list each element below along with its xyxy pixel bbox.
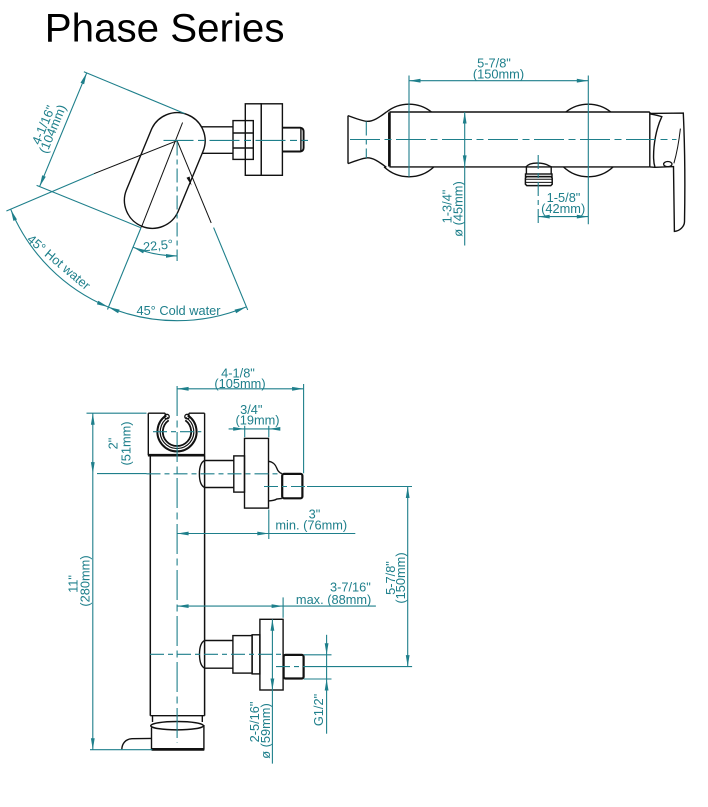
handle lever (top view, stadium outline) <box>124 113 205 229</box>
svg-text:(19mm): (19mm) <box>235 413 279 428</box>
45deg hot water arc <box>11 210 108 307</box>
bottom fitting hex adapter <box>284 655 304 679</box>
extension line upper (to handle tip) <box>84 72 185 114</box>
vertical centerline below pivot <box>176 142 178 262</box>
svg-text:G1/2": G1/2" <box>311 694 326 726</box>
svg-text:(42mm): (42mm) <box>541 201 585 216</box>
dimension 3/4in (19mm) <box>229 428 280 430</box>
extension line 3in <box>268 510 270 540</box>
svg-text:45° Hot water: 45° Hot water <box>24 231 94 293</box>
svg-text:22,5°: 22,5° <box>142 236 173 254</box>
svg-text:(105mm): (105mm) <box>214 376 265 391</box>
outlet stub ring <box>526 174 553 177</box>
svg-text:min. (76mm): min. (76mm) <box>275 518 347 533</box>
mixer body bar <box>389 111 649 113</box>
dimension 3-7/16in max (88mm) <box>177 605 376 607</box>
cold radial extension (teal) <box>214 228 248 310</box>
hot radial extension (teal) <box>6 174 94 211</box>
bottom fitting neck cap <box>200 641 205 669</box>
outlet stub dome <box>526 163 552 167</box>
holder C-clip middle arc <box>160 417 194 448</box>
bottom fitting union ring B <box>252 635 260 674</box>
svg-text:ø (45mm): ø (45mm) <box>450 181 465 236</box>
pipe bottom edge <box>150 715 204 717</box>
bottom fitting escutcheon plate <box>260 619 283 690</box>
svg-text:Phase Series: Phase Series <box>45 5 285 50</box>
extension line 3-7/16 <box>282 597 284 617</box>
extension line lower (to handle end) <box>37 185 141 227</box>
right escutcheon circle arcs <box>566 104 611 112</box>
cone vertical centerline <box>365 122 367 159</box>
top fitting neck cap <box>199 461 204 488</box>
top fitting hex adapter <box>282 474 302 498</box>
floor extension line <box>90 749 152 751</box>
top fitting escutcheon plate <box>245 438 269 508</box>
bottom fitting hex centerline <box>276 666 310 668</box>
dimension G1/2 <box>326 635 328 734</box>
handle 45-deg hot position line (black part) <box>94 141 177 174</box>
lever crease line <box>674 129 681 164</box>
dimension 1-5/8in (42mm) <box>538 216 588 218</box>
outlet stub coupling <box>525 177 552 186</box>
extension lines 3/4 <box>244 426 246 437</box>
bottom fitting neck centerline <box>150 653 281 655</box>
pipe vertical centerline <box>176 386 178 743</box>
extension line left circle center <box>408 76 410 177</box>
holder C-clip tip curls <box>165 414 170 419</box>
top fitting neck <box>205 460 234 462</box>
hex nut <box>233 121 253 160</box>
bar left end bold edge <box>388 112 391 166</box>
threaded stub <box>282 128 303 152</box>
foot toe <box>122 738 152 749</box>
wall flange plate inner <box>245 104 261 176</box>
foot base <box>151 728 153 750</box>
extension line holder top <box>87 412 147 414</box>
extension line right circle center <box>587 76 589 225</box>
top fitting neck centerline <box>147 473 282 475</box>
foot collar <box>152 716 154 722</box>
45deg cold water arc <box>108 307 246 321</box>
dimension 5-7/8in (150mm) <box>409 80 588 82</box>
svg-text:(150mm): (150mm) <box>473 67 524 82</box>
dimension 5-7/8in (150mm) vertical <box>407 487 409 667</box>
top fitting eccentric reducer <box>269 461 282 473</box>
bottom fitting neck <box>205 640 233 642</box>
left escutcheon circle arcs <box>387 104 432 112</box>
svg-text:45° Cold water: 45° Cold water <box>136 303 221 318</box>
horizontal centerline (top-right view) <box>350 139 677 141</box>
dimension 4-1/8in (105mm) <box>177 388 304 390</box>
bottom fitting union ring A <box>233 636 252 674</box>
dimension line 4-1/16in <box>40 73 87 187</box>
shower holder block <box>148 412 165 414</box>
dimension dia 1-3/4in (45mm) <box>464 112 466 246</box>
lever handle outline <box>650 113 685 231</box>
dimension line 11in and 2in shared <box>92 413 94 750</box>
top fitting union ring <box>234 456 245 492</box>
foot base bottom bold edge <box>152 748 205 751</box>
hose holder cone <box>347 116 349 164</box>
holder C-clip inner arc <box>163 420 191 446</box>
svg-text:max. (88mm): max. (88mm) <box>296 592 371 607</box>
holder C-clip outer arc <box>157 415 196 451</box>
extension line top fitting axis left <box>97 473 147 475</box>
horizontal centerline (top-left view) <box>164 139 309 141</box>
dimension dia 2-5/16in (59mm) <box>271 619 273 763</box>
svg-text:(150mm): (150mm) <box>393 552 408 603</box>
top fitting hex centerline <box>264 486 307 488</box>
handle 22.5-deg cold position line (black part) <box>177 141 211 223</box>
valve stem bottom line <box>202 152 233 154</box>
extension lines G1/2 <box>304 654 332 656</box>
valve stem top line <box>201 126 233 128</box>
dimension 3in min (76mm) <box>177 533 355 535</box>
svg-text:(51mm): (51mm) <box>118 421 133 465</box>
extension line 4-1/8 right <box>303 384 305 473</box>
outlet stub centerline <box>537 155 539 224</box>
holder horizontal centerline <box>153 431 201 433</box>
wall pipe body <box>149 455 151 716</box>
small black arrowhead on cold position line <box>187 177 192 186</box>
outlet stub neck <box>525 167 527 174</box>
svg-text:(280mm): (280mm) <box>77 555 92 606</box>
svg-text:ø (59mm): ø (59mm) <box>258 703 273 758</box>
handle axis line <box>141 123 182 228</box>
22.5deg arc <box>133 247 177 256</box>
lever pin ellipse <box>664 162 672 167</box>
lever cap curve <box>650 114 662 167</box>
handle axis radial extension (teal) <box>108 228 141 310</box>
holder block bottom bold edge <box>148 454 205 457</box>
wall flange plate outer <box>261 104 282 176</box>
